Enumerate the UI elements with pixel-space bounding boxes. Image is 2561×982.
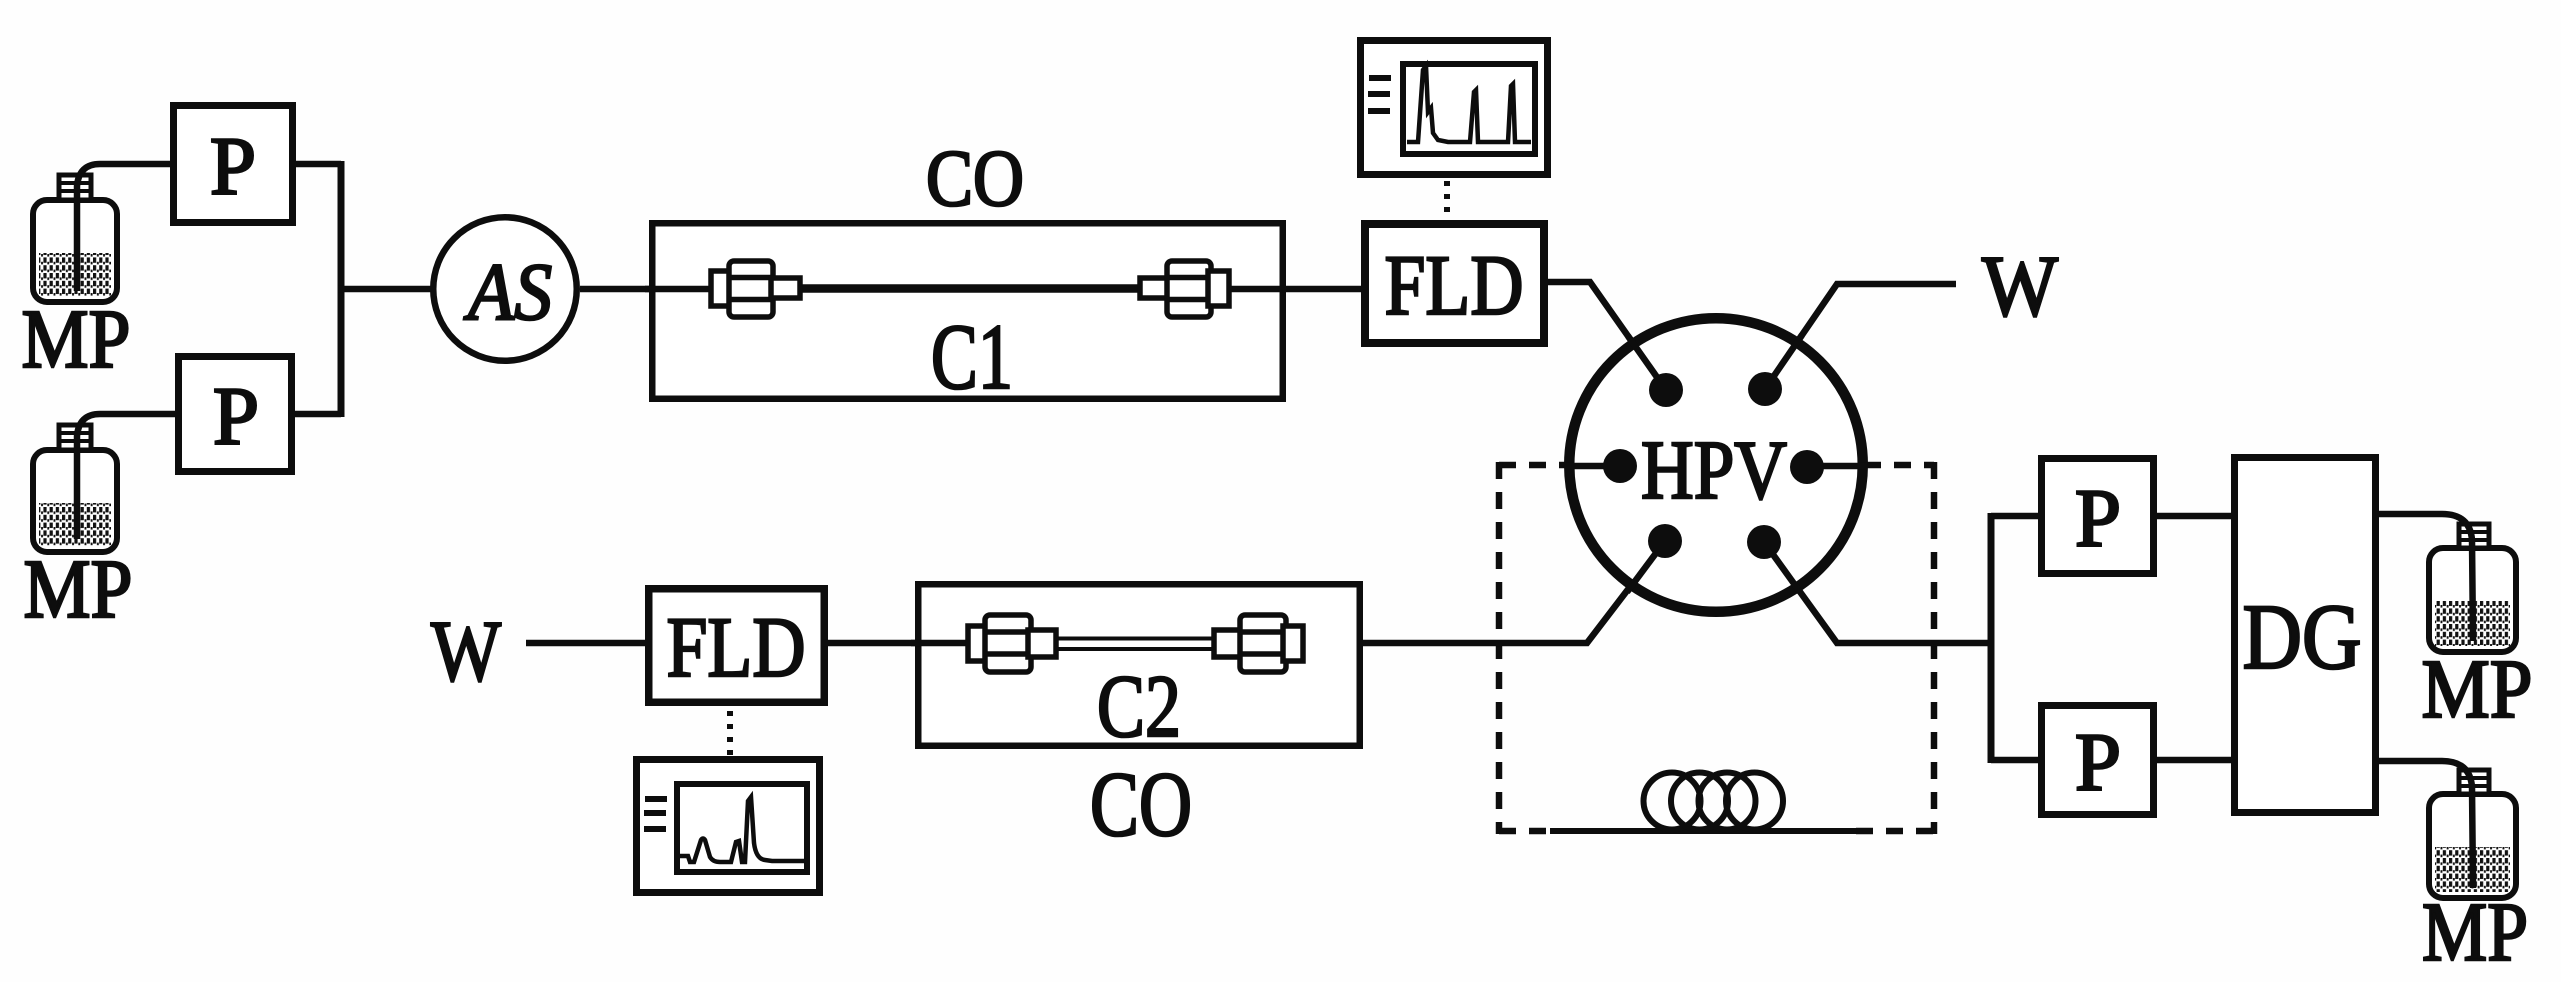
- column oven CO box (bottom): [918, 584, 1360, 746]
- wire FLD2 to C2: [823, 640, 972, 647]
- pump P4: [2042, 706, 2154, 815]
- chromatogram trace 2: [679, 797, 806, 862]
- svg-text:P: P: [213, 370, 259, 462]
- bottle MP4 (bottom-right reservoir): [2429, 770, 2516, 898]
- svg-text:CO: CO: [1090, 753, 1192, 855]
- pump P1: [174, 106, 293, 223]
- wire C1 to FLD1: [1230, 286, 1361, 293]
- svg-text:FLD: FLD: [1385, 237, 1524, 333]
- wire DG to bottle MP4: [2379, 761, 2473, 888]
- chromatogram trace 1: [1407, 66, 1531, 142]
- column C1 left fitting: [711, 261, 800, 317]
- svg-text:P: P: [2075, 472, 2121, 564]
- svg-text:W: W: [431, 602, 501, 699]
- svg-text:AS: AS: [463, 246, 552, 337]
- monitor display 1 (above FLD1): [1361, 41, 1548, 175]
- detector FLD2: [649, 589, 825, 703]
- sample loop coil: [1644, 773, 1784, 830]
- column C2 left fitting: [968, 615, 1056, 672]
- monitor display 2 (below FLD2): [637, 760, 820, 893]
- wire junction vertical: [338, 161, 345, 417]
- stub top-left diag: [1628, 336, 1666, 390]
- wire P1 to junction: [296, 161, 341, 168]
- wire into C2: [911, 640, 972, 647]
- wire valve port to pumps (right): [1764, 542, 1991, 643]
- wire P2 to junction: [295, 411, 341, 418]
- stub bottom-left diag: [1627, 541, 1665, 592]
- wire P4 to DG: [2157, 757, 2231, 764]
- bottle MP2 (lower-left reservoir): [33, 425, 117, 552]
- svg-text:MP: MP: [2422, 886, 2528, 979]
- svg-text:FLD: FLD: [667, 599, 806, 695]
- wire P3 to DG: [2157, 513, 2231, 520]
- column C1 tube: [796, 284, 1142, 293]
- pump P3: [2042, 459, 2154, 574]
- pump P2: [179, 357, 292, 472]
- wire to pump bracket vertical: [1988, 513, 1995, 763]
- wire FLD1 to valve port: [1548, 282, 1666, 390]
- wire bottle MP1 to pump P1: [77, 164, 171, 291]
- svg-text:P: P: [210, 120, 256, 212]
- wire DG to bottle MP3: [2379, 514, 2473, 641]
- degasser DG: [2235, 458, 2376, 813]
- svg-text:MP: MP: [2422, 643, 2533, 736]
- port dots: [1649, 373, 1683, 407]
- column C2 right fitting: [1214, 615, 1303, 672]
- svg-text:HPV: HPV: [1641, 424, 1787, 517]
- svg-text:W: W: [1982, 237, 2058, 334]
- stub bottom-right diag: [1764, 542, 1800, 592]
- autosampler AS: [433, 217, 577, 361]
- stub left-mid: [1566, 463, 1620, 470]
- svg-text:MP: MP: [24, 543, 133, 636]
- svg-text:MP: MP: [22, 293, 131, 386]
- dashed loop box: [1499, 462, 1934, 834]
- column oven CO box (top): [652, 223, 1283, 399]
- svg-text:P: P: [2075, 716, 2121, 808]
- dotted link FLD2 to monitor2: [727, 711, 733, 757]
- svg-text:DG: DG: [2243, 586, 2362, 689]
- wire into C1: [645, 286, 714, 293]
- svg-text:CO: CO: [926, 133, 1024, 223]
- wire AS to column oven 1: [580, 286, 714, 293]
- stub top-right diag: [1765, 335, 1802, 389]
- bottle MP3 (top-right reservoir): [2429, 524, 2516, 652]
- wire valve port to waste W (top): [1765, 284, 1956, 389]
- svg-text:C2: C2: [1097, 658, 1181, 756]
- wire W to FLD2: [526, 640, 650, 647]
- wire junction to AS: [338, 286, 432, 293]
- wire bottle MP2 to pump P2: [77, 414, 175, 539]
- detector FLD1: [1365, 224, 1544, 343]
- wire bracket to P4: [1991, 757, 2038, 764]
- valve HPV: [1566, 318, 1866, 612]
- dotted link monitor1 to FLD1: [1444, 181, 1450, 220]
- svg-text:C1: C1: [931, 306, 1013, 409]
- wire bracket to P3: [1991, 513, 2038, 520]
- bottle MP1 (top-left reservoir): [33, 175, 117, 302]
- column C1 right fitting: [1140, 261, 1229, 317]
- loop tube bottom (solid): [1550, 828, 1862, 834]
- column C2 tube: [1050, 639, 1220, 650]
- wire C2 to valve port (diagonal): [1304, 541, 1665, 643]
- stub right-mid: [1807, 463, 1866, 470]
